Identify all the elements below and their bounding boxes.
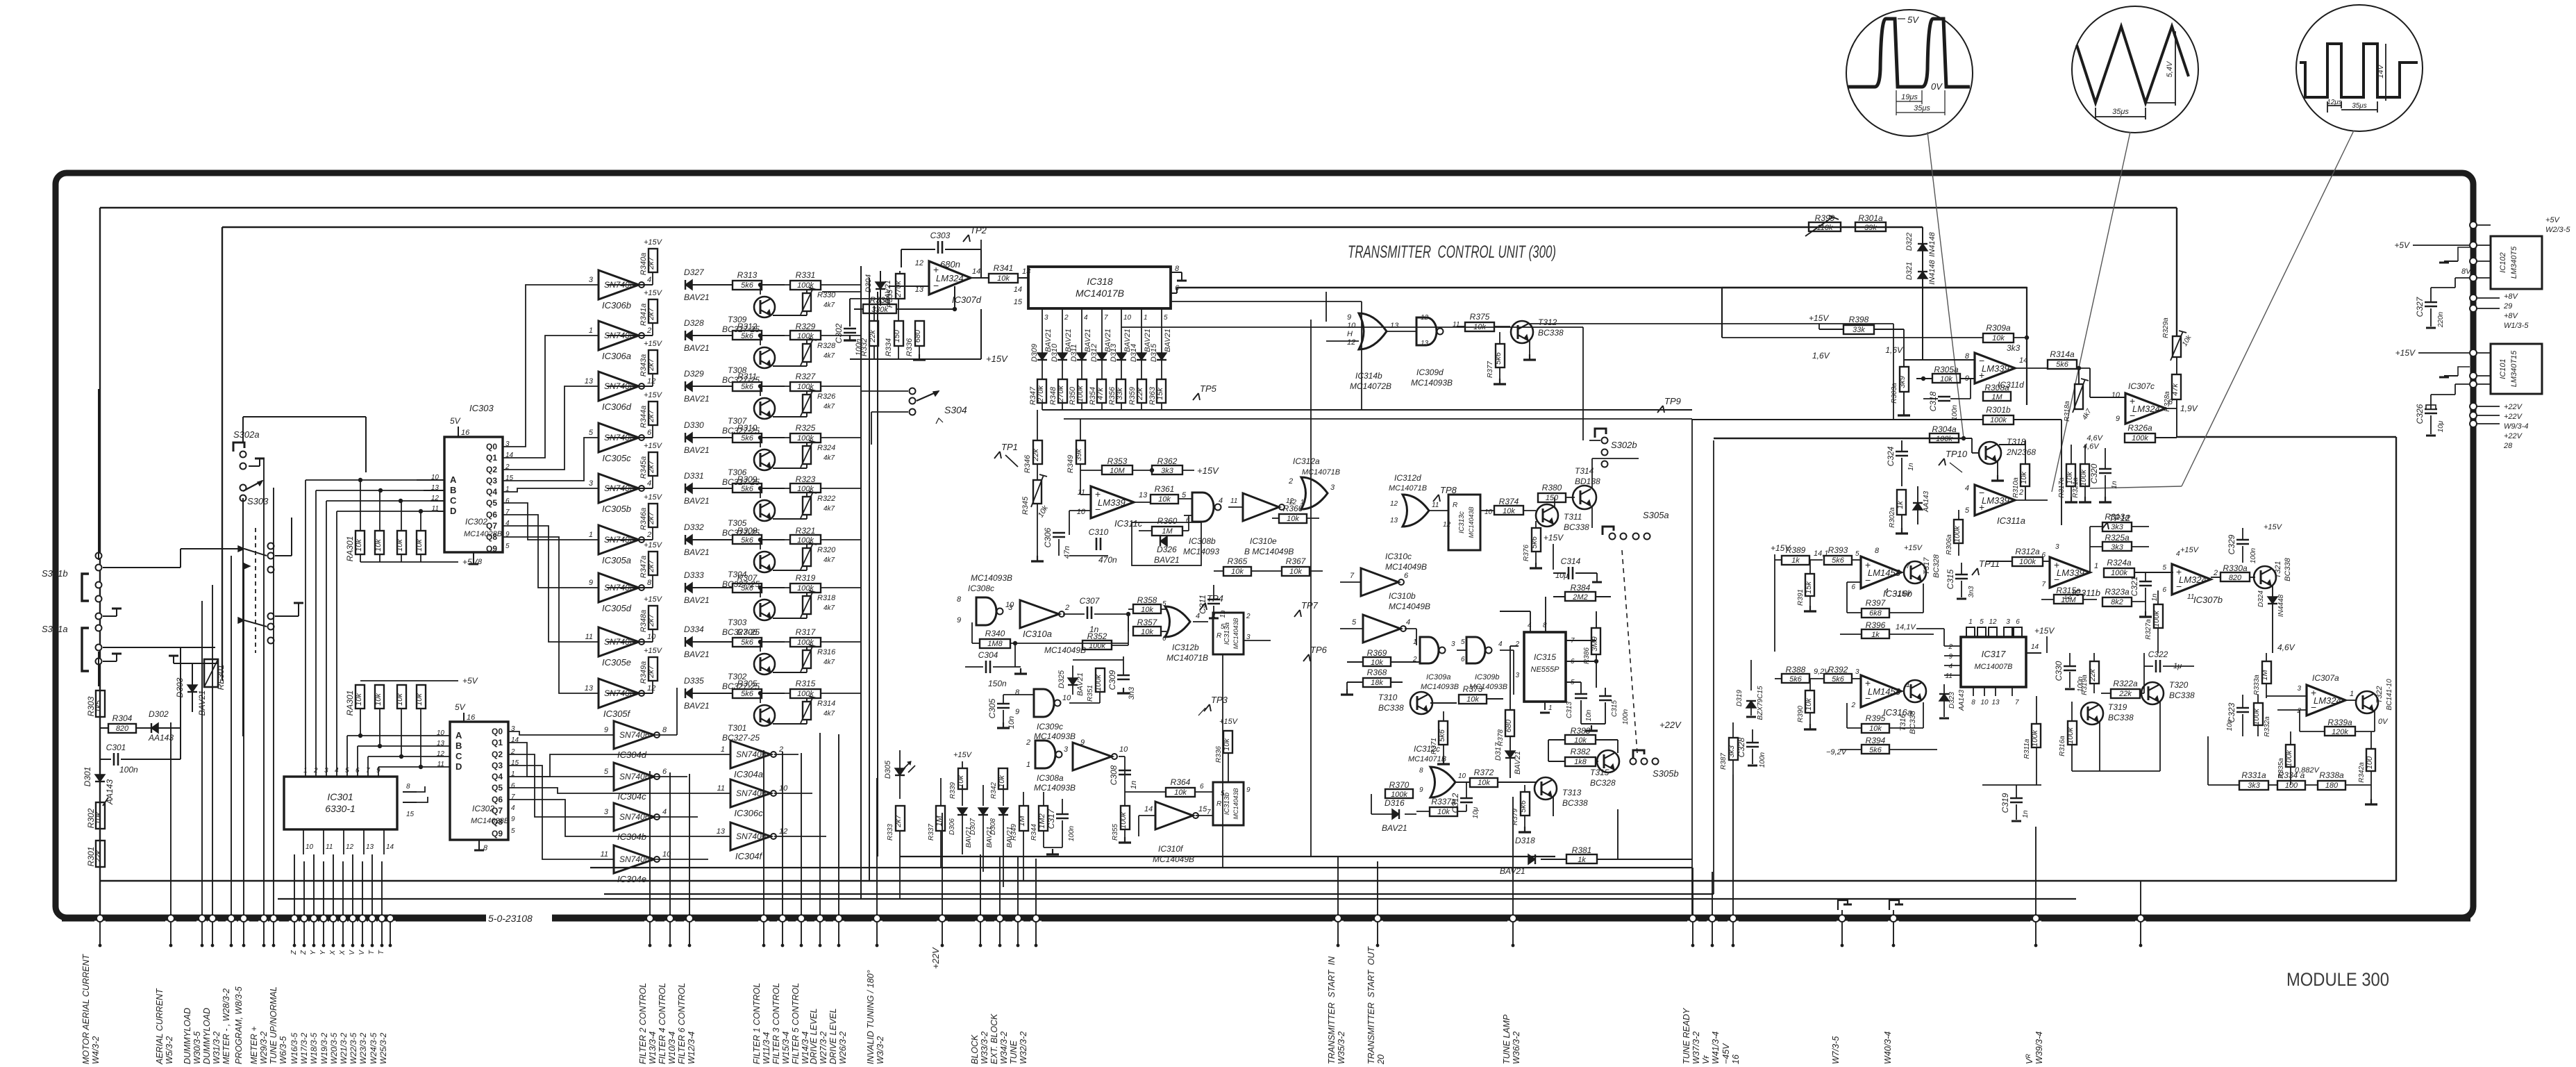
svg-text:2: 2 (1026, 738, 1030, 747)
svg-text:TP11: TP11 (1979, 559, 2000, 569)
nand gate IC309a MC14093B (1420, 637, 1439, 663)
connector circles right edge upper (2470, 222, 2477, 229)
svg-text:D304: D304 (864, 274, 873, 292)
inverter IC310c MC14049B (1361, 568, 1398, 596)
test point TP4 (1200, 603, 1205, 610)
svg-text:1,6V: 1,6V (1885, 345, 1903, 355)
svg-text:−15V: −15V (1893, 590, 1912, 598)
diode D319 BZX79C15 (1750, 660, 1752, 690)
svg-text:R352: R352 (1087, 631, 1107, 641)
wire (1042, 409, 1692, 411)
svg-text:11: 11 (717, 784, 725, 793)
inverter IC304f SN7406 (730, 822, 771, 850)
op-amp IC316b LM1458 (1861, 556, 1901, 588)
svg-text:1k: 1k (1871, 631, 1880, 639)
svg-text:4: 4 (1884, 588, 1889, 595)
svg-text:10M: 10M (2061, 596, 2076, 604)
capacitor C306 47n (1053, 532, 1065, 534)
svg-text:4,6V: 4,6V (2083, 442, 2100, 451)
svg-text:2k7: 2k7 (647, 358, 655, 372)
resistor R356 (1121, 360, 1122, 379)
svg-text:1k5: 1k5 (94, 700, 103, 713)
svg-text:16: 16 (1731, 1054, 1741, 1064)
svg-text:W26/3-2: W26/3-2 (838, 1032, 848, 1064)
svg-text:IC309a: IC309a (1426, 673, 1450, 681)
transistor T308 BC327-25 (754, 347, 775, 368)
svg-text:FILTER 4 CONTROL: FILTER 4 CONTROL (658, 983, 667, 1064)
svg-text:8: 8 (1971, 699, 1975, 706)
svg-text:MC14028B: MC14028B (471, 817, 509, 825)
svg-text:5: 5 (1461, 638, 1465, 646)
wire (2177, 436, 2396, 438)
svg-text:5k6: 5k6 (1519, 800, 1528, 813)
svg-text:T319: T319 (2108, 702, 2127, 712)
capacitor C303 680n (901, 249, 935, 250)
svg-text:R334: R334 (885, 338, 893, 356)
svg-text:10: 10 (1123, 314, 1132, 322)
resistor R313 5k6 (733, 281, 762, 290)
svg-text:+15V: +15V (644, 595, 663, 604)
test point TP9 (1657, 406, 1663, 413)
svg-text:R353: R353 (1107, 456, 1128, 466)
connector circles right edge lower (2470, 349, 2477, 356)
svg-text:2: 2 (1288, 477, 1293, 486)
svg-text:22k: 22k (2089, 669, 2097, 682)
svg-text:10k: 10k (1287, 515, 1299, 523)
wire (1222, 654, 1223, 868)
svg-text:1k: 1k (1578, 856, 1586, 864)
svg-text:R301a: R301a (1858, 213, 1883, 223)
svg-text:10k: 10k (396, 693, 404, 706)
diode D325 BAV21 (1072, 665, 1073, 695)
ground (1037, 535, 1038, 556)
svg-text:D319: D319 (1736, 690, 1743, 706)
wire (100, 207, 2177, 208)
svg-text:+15V: +15V (1904, 544, 1923, 552)
svg-text:R314a: R314a (2050, 349, 2075, 359)
svg-text:R322: R322 (817, 495, 835, 503)
svg-text:T304: T304 (728, 570, 747, 579)
wire dashed (1622, 550, 1637, 753)
IC IC313c MC14043B (1448, 495, 1480, 550)
test point TP3 (1204, 704, 1210, 711)
svg-text:4: 4 (511, 804, 515, 812)
svg-text:SN7406: SN7406 (619, 812, 650, 822)
svg-text:20: 20 (1376, 1054, 1386, 1065)
transistor T322 BC141-10 (2356, 691, 2378, 713)
svg-text:C330: C330 (2054, 661, 2064, 681)
wire (607, 284, 653, 286)
svg-text:METER - , W28/3-2: METER - , W28/3-2 (221, 989, 231, 1064)
svg-text:2k7: 2k7 (647, 511, 655, 525)
svg-text:1M: 1M (2261, 670, 2269, 681)
svg-text:100n: 100n (119, 765, 138, 775)
svg-text:R340: R340 (985, 629, 1005, 638)
svg-text:AA143: AA143 (1923, 491, 1930, 513)
inverter IC310d MC14049B (1073, 743, 1112, 770)
svg-text:Q7: Q7 (492, 806, 503, 816)
svg-text:0,882V: 0,882V (2295, 766, 2320, 775)
svg-text:10M: 10M (1110, 467, 1125, 475)
diode D308 BAV21 (1003, 785, 1004, 806)
wire (1121, 326, 1583, 328)
svg-text:R387: R387 (1720, 753, 1728, 770)
resistor R361 10k (1151, 495, 1178, 504)
leader line (2090, 486, 2182, 488)
svg-text:C305: C305 (987, 698, 997, 718)
switch S302a (233, 442, 244, 452)
svg-text:680: 680 (1505, 719, 1513, 732)
resistor R335 270k (896, 274, 905, 299)
inverter IC305c SN7406 (599, 423, 639, 452)
svg-text:BAV21: BAV21 (684, 394, 710, 404)
diode D320 AA143 (1917, 486, 1918, 524)
resistor R305 5k6 (733, 689, 762, 698)
svg-text:35μs: 35μs (1914, 104, 1930, 113)
svg-text:1: 1 (1026, 761, 1030, 769)
svg-text:13: 13 (585, 377, 594, 386)
wire (607, 488, 653, 489)
svg-text:D309: D309 (1030, 344, 1039, 362)
svg-text:D321: D321 (1905, 262, 1914, 280)
resistor R335a 100k (2286, 745, 2295, 767)
svg-text:270k: 270k (894, 281, 903, 298)
svg-text:10k: 10k (1223, 738, 1231, 751)
wire (221, 227, 223, 681)
IC IC101 LM340T15 (2491, 344, 2542, 394)
svg-text:NE555P: NE555P (1531, 665, 1560, 674)
transistor T313 BC338 (1534, 777, 1557, 800)
svg-text:9: 9 (1419, 786, 1423, 794)
wire (607, 539, 653, 540)
svg-text:+15V: +15V (1544, 533, 1564, 543)
svg-text:4: 4 (1948, 663, 1952, 670)
resistor R376 5k6 (1532, 528, 1541, 552)
wire (99, 208, 101, 918)
capacitor C304 150n (985, 661, 987, 673)
svg-text:9: 9 (1015, 708, 1019, 716)
svg-text:5k6: 5k6 (1869, 746, 1882, 754)
svg-text:S301a: S301a (42, 624, 68, 634)
svg-text:3M9: 3M9 (1591, 636, 1599, 651)
svg-text:R313a: R313a (2105, 512, 2130, 522)
svg-text:10k: 10k (1437, 808, 1450, 816)
svg-text:+15V: +15V (1809, 313, 1829, 323)
capacitor C328 100n (1746, 742, 1759, 744)
svg-text:220n: 220n (2437, 311, 2445, 328)
svg-text:W41/3-4: W41/3-4 (1711, 1032, 1721, 1064)
diode D332 BAV21 (685, 535, 692, 545)
capacitor C307 1n (1087, 606, 1089, 619)
resistor R326a 100k (2125, 433, 2155, 442)
nand gate IC308a MC14093B (1035, 741, 1055, 768)
svg-text:2: 2 (1246, 613, 1251, 620)
resistor R367 10k (1282, 567, 1310, 576)
svg-text:6330-1: 6330-1 (325, 803, 356, 814)
svg-text:TP1: TP1 (1001, 442, 1018, 452)
svg-text:R316a: R316a (2059, 736, 2066, 756)
op-amp IC307c LM324 (2125, 393, 2166, 424)
diode D321 IN4148 (1918, 272, 1927, 279)
wire (607, 641, 653, 643)
svg-text:Q4: Q4 (492, 772, 503, 781)
resistor R389 1k (1782, 556, 1809, 565)
svg-text:15: 15 (406, 811, 415, 818)
svg-text:MC14093B: MC14093B (1034, 783, 1076, 793)
svg-text:100k: 100k (1936, 435, 1952, 443)
capacitor C301 (99, 728, 101, 759)
svg-text:SN7406: SN7406 (619, 854, 650, 864)
diode D306 BAV21 (962, 785, 963, 806)
svg-text:29: 29 (2503, 302, 2512, 311)
transistor T312 BC338 (1511, 321, 1533, 343)
resistor R310 5k6 (733, 433, 762, 442)
capacitor C314 10u (1568, 567, 1570, 579)
wire (1922, 288, 1923, 360)
svg-text:D: D (455, 761, 462, 772)
svg-text:4k7: 4k7 (823, 454, 835, 462)
svg-text:W23/3-2: W23/3-2 (358, 1032, 368, 1064)
svg-text:MC14049B: MC14049B (1044, 645, 1086, 655)
resistor R323a 8k2 (2102, 597, 2132, 606)
svg-text:+5V: +5V (2545, 216, 2561, 224)
svg-text:10k: 10k (415, 693, 424, 706)
resistor R301 (99, 829, 101, 841)
resistor R365 10k (1223, 567, 1251, 576)
svg-text:+15V: +15V (644, 442, 663, 450)
resistor R321 100k (790, 535, 821, 544)
wire (1691, 419, 1693, 918)
svg-text:R322a: R322a (2113, 679, 2138, 688)
IC IC302 lower MC14028B (450, 722, 508, 840)
svg-text:10k: 10k (1231, 568, 1244, 576)
svg-text:9: 9 (1347, 313, 1351, 322)
svg-text:3: 3 (1008, 604, 1013, 612)
transistor T319 BC338 (2081, 702, 2103, 725)
wire (103, 567, 181, 568)
test point TP5 (1193, 393, 1198, 400)
svg-text:+15V: +15V (953, 751, 973, 759)
svg-text:IC309c: IC309c (1037, 722, 1063, 731)
relay RE301 (204, 659, 218, 687)
svg-text:R332: R332 (860, 338, 869, 356)
svg-text:W25/3-2: W25/3-2 (378, 1032, 388, 1064)
svg-text:2: 2 (1064, 604, 1069, 612)
resistor R302a 1k (1897, 490, 1906, 515)
svg-text:T317: T317 (1923, 557, 1931, 575)
svg-text:DUMMYLOAD: DUMMYLOAD (183, 1008, 192, 1064)
svg-text:R368: R368 (1367, 668, 1387, 677)
svg-text:R318: R318 (817, 594, 836, 602)
variable resistor R329a 10k (2173, 336, 2181, 357)
svg-text:BC327-25: BC327-25 (722, 477, 760, 487)
scope circle square wave (1846, 10, 1973, 136)
svg-text:IC311a: IC311a (1997, 515, 2025, 526)
svg-text:BC338: BC338 (2169, 690, 2195, 700)
svg-text:12: 12 (1443, 521, 1451, 529)
svg-text:R344: R344 (1030, 824, 1038, 841)
svg-text:10k: 10k (396, 539, 404, 552)
svg-text:BZX79C15: BZX79C15 (1757, 686, 1764, 720)
svg-text:D329: D329 (684, 369, 704, 379)
resistor R382 1k8 (1565, 757, 1596, 766)
svg-text:10k: 10k (1141, 628, 1153, 636)
svg-text:LM324: LM324 (936, 273, 964, 283)
svg-text:W40/3-4: W40/3-4 (1883, 1032, 1893, 1064)
variable resistor R318 4k7 (803, 596, 811, 614)
svg-text:RA301: RA301 (345, 536, 355, 562)
svg-text:5k6: 5k6 (1494, 351, 1503, 365)
svg-text:10k: 10k (998, 775, 1006, 788)
resistor R327a 100k (2154, 604, 2163, 628)
svg-text:R381: R381 (1572, 845, 1592, 855)
variable resistor R399 110k (1809, 222, 1841, 231)
variable resistor R330 4k7 (803, 293, 811, 311)
svg-text:R: R (1216, 800, 1221, 808)
svg-text:4: 4 (1528, 622, 1532, 629)
svg-text:R311a: R311a (2023, 738, 2031, 759)
svg-text:R303a: R303a (1891, 383, 1898, 404)
or gate IC312d MC14071B (1403, 495, 1429, 527)
svg-text:3: 3 (2055, 543, 2059, 551)
svg-text:1: 1 (2350, 690, 2354, 698)
svg-text:AERIAL CURRENT: AERIAL CURRENT (155, 988, 165, 1065)
svg-text:1: 1 (589, 531, 593, 539)
resistor R336b 10k (1223, 731, 1232, 753)
svg-text:Vᴿ: Vᴿ (2025, 1054, 2034, 1064)
svg-text:W29/3-2: W29/3-2 (259, 1032, 269, 1064)
svg-text:33k: 33k (1852, 326, 1865, 334)
diode D329 BAV21 (685, 381, 692, 391)
wire stub group IC301 (294, 854, 295, 915)
capacitor C302 100n (849, 299, 851, 326)
svg-text:IC305f: IC305f (603, 709, 631, 719)
svg-text:8k2: 8k2 (2111, 598, 2123, 606)
svg-text:12: 12 (1421, 314, 1429, 322)
svg-text:4: 4 (1406, 618, 1410, 627)
svg-text:D301: D301 (83, 767, 92, 787)
svg-text:R355: R355 (1112, 824, 1119, 841)
resistor R315a 10M (2054, 595, 2083, 604)
svg-text:5: 5 (604, 768, 609, 776)
svg-text:6: 6 (505, 497, 510, 505)
svg-text:IC307a: IC307a (2312, 673, 2339, 683)
svg-text:10n: 10n (2226, 719, 2234, 731)
op-amp IC311b LM339 (2050, 557, 2090, 588)
svg-text:IC314b: IC314b (1355, 371, 1382, 381)
wire collector bus (860, 266, 862, 899)
svg-text:R366: R366 (1283, 504, 1303, 513)
wire (1177, 287, 2027, 288)
svg-text:IC308b: IC308b (1189, 536, 1216, 546)
nand gate IC309b MC14093B (1466, 637, 1485, 663)
resistor R369 10k (1363, 657, 1391, 666)
svg-text:+15V: +15V (644, 391, 663, 399)
ground hook W40/3-4 (1889, 900, 1899, 910)
svg-text:R344a: R344a (639, 406, 648, 428)
svg-text:+5V: +5V (462, 557, 478, 567)
svg-text:MC14071B: MC14071B (1408, 755, 1446, 763)
svg-text:BAV21: BAV21 (1382, 823, 1407, 833)
svg-text:16: 16 (467, 713, 476, 722)
svg-text:TP6: TP6 (1310, 645, 1328, 655)
wire (607, 587, 653, 588)
resistor R339 10k (958, 768, 967, 789)
resistor R307 5k6 (733, 584, 762, 593)
svg-text:BC327-25: BC327-25 (722, 627, 760, 637)
svg-text:IC318: IC318 (1087, 276, 1113, 287)
svg-text:D335: D335 (684, 676, 704, 686)
svg-text:IC301: IC301 (327, 791, 353, 802)
svg-text:D307: D307 (969, 818, 977, 835)
resistor array RA301 upper (360, 480, 361, 531)
or gate IC312a MC14071B (1301, 477, 1328, 509)
wire IC302 upper inputs (306, 479, 444, 481)
svg-text:FILTER 1 CONTROL: FILTER 1 CONTROL (752, 983, 762, 1064)
svg-text:+15V: +15V (644, 541, 663, 549)
svg-text:+15V: +15V (2180, 546, 2200, 554)
wire (2207, 736, 2209, 785)
svg-text:270k: 270k (1037, 386, 1045, 403)
svg-text:13: 13 (1390, 517, 1398, 524)
svg-text:1: 1 (1968, 618, 1973, 626)
wire (1591, 458, 1593, 489)
resistor R353 10M (1102, 465, 1132, 474)
resistor R338 330k (863, 304, 896, 313)
svg-text:IC306d: IC306d (602, 402, 632, 412)
svg-text:14,1V: 14,1V (1896, 623, 1916, 631)
svg-text:D330: D330 (684, 420, 704, 430)
svg-text:METER +: METER + (249, 1026, 259, 1064)
variable resistor R318a 4k7 (2075, 384, 2083, 409)
capacitor C319 1n (2010, 797, 2023, 800)
svg-text:R317: R317 (796, 627, 817, 637)
svg-text:D326: D326 (1157, 545, 1177, 554)
transistor T316 BC338 (1904, 680, 1926, 702)
svg-text:R374: R374 (1499, 497, 1519, 506)
svg-text:R341a: R341a (639, 304, 648, 326)
svg-text:3: 3 (1044, 314, 1048, 322)
wire (242, 498, 244, 736)
op-amp IC311d LM339 (1975, 353, 2015, 383)
resistor R347a 2k7 (652, 575, 653, 588)
svg-text:47k: 47k (1096, 388, 1105, 400)
variable resistor R345 10k (1033, 480, 1042, 504)
svg-text:15: 15 (1014, 298, 1023, 306)
svg-text:5k6: 5k6 (1530, 536, 1539, 549)
svg-text:W10/3-4: W10/3-4 (667, 1032, 677, 1064)
resistor R306a 100k (1954, 520, 1963, 543)
svg-text:10k: 10k (1574, 736, 1587, 745)
inverter IC306b SN7406 (599, 270, 639, 299)
svg-text:10k: 10k (355, 539, 363, 552)
svg-text:470n: 470n (1098, 555, 1117, 565)
svg-text:R336: R336 (1215, 746, 1223, 763)
svg-text:100k: 100k (2152, 611, 2161, 627)
svg-text:X: X (329, 950, 337, 956)
svg-text:14: 14 (972, 267, 980, 276)
wire (900, 856, 1555, 857)
resistor R398 33k (1843, 325, 1874, 334)
svg-text:C315: C315 (1946, 569, 1955, 589)
svg-text:BAV21: BAV21 (684, 595, 710, 605)
svg-text:C309: C309 (1107, 670, 1117, 690)
svg-text:10k: 10k (1289, 568, 1302, 576)
svg-text:7: 7 (1350, 572, 1355, 580)
capacitor C315b 3n3 (1955, 574, 1968, 576)
svg-text:IC309b: IC309b (1475, 673, 1499, 681)
resistor R302 (96, 802, 105, 829)
